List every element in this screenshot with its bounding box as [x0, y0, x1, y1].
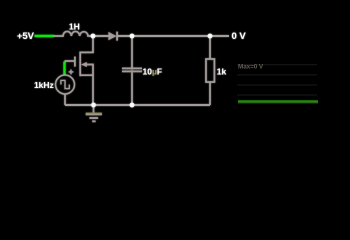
resistor R1 — [206, 36, 214, 105]
voltage source V1 (1kHz square wave) — [56, 75, 75, 94]
svg-text:Max=0 V: Max=0 V — [238, 63, 264, 70]
wire bottom rail (V1 to R1 bottom) — [65, 104, 210, 106]
ground — [86, 105, 102, 121]
junction dot at L1/D1/Q1 drain node — [91, 34, 96, 39]
wire (L1 to D1 anode) — [93, 35, 109, 37]
plus sign (V1 positive terminal) — [69, 70, 74, 75]
junction dot at C1 bottom node — [130, 103, 135, 108]
inductor L1 — [54, 31, 93, 36]
capacitor C1 — [122, 36, 142, 105]
junction dot at R1 top node — [208, 34, 213, 39]
junction dot at ground node — [91, 103, 96, 108]
transistor Q1 (N-channel MOSFET) — [65, 36, 94, 105]
schematic glow overlay — [17, 22, 247, 122]
wire (V1 bottom lead) — [64, 94, 66, 105]
wire (D1 cathode to node C) — [117, 35, 132, 37]
junction dot at C1 top node — [130, 34, 135, 39]
scope panel gridlines — [237, 65, 317, 95]
wire +5V supply (green, node +5V to L1) — [35, 35, 55, 37]
wire gate (green, V1 + to Q1 gate) — [63, 62, 65, 75]
diode D1 — [108, 32, 117, 41]
wire (node OUT stub toward 0V label) — [210, 35, 229, 37]
scope trace (0V flat line) — [238, 101, 318, 103]
wire (node C to node OUT) — [132, 35, 210, 37]
